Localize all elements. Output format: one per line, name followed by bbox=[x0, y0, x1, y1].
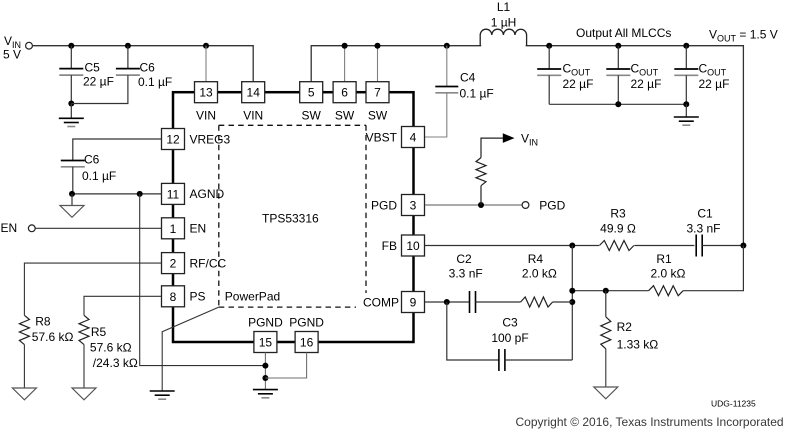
ground triangle under R8 bbox=[12, 345, 36, 400]
pin 8 PS bbox=[162, 286, 206, 307]
node VIN-C6 bbox=[125, 43, 131, 49]
svg-text:/24.3 kΩ: /24.3 kΩ bbox=[93, 356, 138, 370]
inductor L1 bbox=[480, 0, 526, 46]
svg-text:22 µF: 22 µF bbox=[699, 77, 730, 91]
svg-text:C6: C6 bbox=[84, 153, 100, 167]
svg-text:UDG-11235: UDG-11235 bbox=[711, 399, 756, 409]
svg-text:22 µF: 22 µF bbox=[631, 77, 662, 91]
ground triangle under C6 bbox=[60, 194, 84, 217]
svg-text:2: 2 bbox=[170, 257, 177, 271]
pin 4 VBST bbox=[366, 127, 425, 148]
pin 15 PGND bbox=[248, 316, 283, 353]
pin 12 VREG3 bbox=[162, 129, 231, 150]
ground earth under C5 bbox=[59, 104, 84, 127]
ground earth under COUT3 bbox=[674, 104, 699, 125]
node star-AGND bbox=[262, 363, 268, 369]
node VIN-pin13 bbox=[203, 43, 209, 49]
svg-text:10: 10 bbox=[406, 239, 420, 253]
svg-text:RF/CC: RF/CC bbox=[190, 256, 227, 270]
svg-text:5 V: 5 V bbox=[3, 48, 21, 62]
resistor R3 bbox=[599, 207, 636, 252]
wire RF/CC to R8 bbox=[24, 263, 161, 315]
svg-text:1: 1 bbox=[170, 222, 177, 236]
svg-text:3.3 nF: 3.3 nF bbox=[449, 267, 483, 281]
svg-text:100 pF: 100 pF bbox=[491, 331, 528, 345]
capacitor C6 (VREG3 bypass) bbox=[61, 139, 162, 194]
wire FB vertical bbox=[571, 246, 573, 361]
svg-text:4: 4 bbox=[410, 131, 417, 145]
wire pin15 ground drop bbox=[264, 353, 266, 390]
node OUT-COUT3 bbox=[683, 43, 689, 49]
svg-text:SW: SW bbox=[368, 109, 388, 123]
IC TPS53316 pin ring bbox=[173, 92, 414, 342]
capacitor COUT 3 bbox=[674, 46, 729, 105]
capacitor C6 (input bypass) bbox=[116, 46, 172, 89]
node AGND-C6 bbox=[69, 191, 75, 197]
svg-text:R5: R5 bbox=[91, 325, 107, 339]
svg-text:SW: SW bbox=[335, 109, 355, 123]
pin 13 VIN bbox=[195, 82, 218, 123]
node star-pin16 bbox=[262, 375, 268, 381]
node bus-COUT3 bbox=[683, 101, 689, 107]
svg-text:15: 15 bbox=[259, 336, 273, 350]
terminal PGD bbox=[522, 202, 529, 209]
svg-text:1 µH: 1 µH bbox=[491, 16, 517, 30]
capacitor C1 bbox=[686, 207, 743, 258]
svg-text:SW: SW bbox=[302, 109, 322, 123]
wire FB bbox=[425, 245, 695, 247]
svg-text:C6: C6 bbox=[140, 61, 156, 75]
svg-text:57.6 kΩ: 57.6 kΩ bbox=[32, 330, 74, 344]
pin 1 EN bbox=[162, 218, 207, 239]
wire AGND tie to PGND star bbox=[140, 194, 266, 366]
capacitor C5 bbox=[59, 46, 114, 104]
node VOUT-C1 bbox=[740, 243, 746, 249]
svg-text:FB: FB bbox=[382, 239, 397, 253]
svg-text:0.1 µF: 0.1 µF bbox=[138, 75, 172, 89]
node R1-R2 bbox=[603, 288, 609, 294]
ground earth PowerPad bbox=[150, 391, 175, 399]
svg-text:7: 7 bbox=[374, 86, 381, 100]
wire SW rail bbox=[311, 46, 743, 246]
svg-text:16: 16 bbox=[300, 336, 314, 350]
wire EN bbox=[35, 227, 161, 229]
svg-text:PowerPad: PowerPad bbox=[225, 290, 280, 304]
svg-text:49.9 Ω: 49.9 Ω bbox=[600, 221, 636, 235]
wire riser pin13 bbox=[205, 46, 207, 82]
svg-text:2.0 kΩ: 2.0 kΩ bbox=[522, 267, 557, 281]
node VIN-C5 bbox=[68, 43, 74, 49]
capacitor COUT 2 bbox=[606, 46, 661, 105]
hide rail under inductor bbox=[481, 44, 525, 47]
svg-text:5: 5 bbox=[308, 86, 315, 100]
wire AGND bbox=[72, 193, 162, 195]
svg-text:6: 6 bbox=[341, 86, 348, 100]
wire PS to R5 bbox=[84, 296, 162, 315]
svg-text:L1: L1 bbox=[497, 0, 511, 14]
resistor R1 bbox=[649, 252, 686, 296]
node OUT-COUT2 bbox=[615, 43, 621, 49]
svg-text:22 µF: 22 µF bbox=[563, 77, 594, 91]
node AGND-tie bbox=[137, 191, 143, 197]
svg-text:13: 13 bbox=[199, 86, 213, 100]
svg-text:R2: R2 bbox=[617, 320, 633, 334]
ground triangle under R5 bbox=[72, 345, 96, 400]
svg-text:C5: C5 bbox=[85, 61, 101, 75]
resistor pull-up to VIN bbox=[476, 138, 503, 205]
pin 7 SW bbox=[366, 82, 389, 123]
wire C6 to ground node bbox=[71, 75, 128, 103]
node SW-C4 bbox=[444, 43, 450, 49]
terminal EN bbox=[28, 225, 35, 232]
svg-text:14: 14 bbox=[247, 86, 261, 100]
svg-text:0.1 µF: 0.1 µF bbox=[82, 169, 116, 183]
IC body dashed outline bbox=[219, 125, 366, 307]
node FB-R4 bbox=[569, 299, 575, 305]
pin 11 AGND bbox=[162, 183, 225, 204]
node C5 ground bbox=[68, 101, 74, 107]
svg-text:AGND: AGND bbox=[190, 187, 225, 201]
svg-text:PGD: PGD bbox=[371, 198, 397, 212]
arrow to VIN bbox=[503, 133, 515, 143]
svg-text:PGND: PGND bbox=[289, 316, 324, 330]
svg-text:3.3 nF: 3.3 nF bbox=[686, 221, 720, 235]
svg-text:TPS53316: TPS53316 bbox=[262, 212, 319, 226]
svg-text:0.1 µF: 0.1 µF bbox=[460, 87, 494, 101]
wire COMP bbox=[425, 301, 470, 303]
svg-text:C2: C2 bbox=[456, 252, 472, 266]
node SW-pin6 bbox=[342, 43, 348, 49]
svg-text:R3: R3 bbox=[610, 207, 626, 221]
pin 10 FB bbox=[382, 235, 425, 256]
svg-text:R8: R8 bbox=[35, 315, 51, 329]
svg-text:VREG3: VREG3 bbox=[190, 132, 231, 146]
resistor R5 bbox=[79, 315, 138, 370]
wire R1 to FB node bbox=[572, 290, 648, 292]
svg-text:12: 12 bbox=[166, 133, 180, 147]
wire VOUT down to R1 bbox=[683, 246, 743, 291]
wire riser pin6 bbox=[344, 46, 346, 82]
svg-text:8: 8 bbox=[170, 290, 177, 304]
node FB bbox=[569, 243, 575, 249]
node FB-R1 bbox=[569, 288, 575, 294]
pin 14 VIN bbox=[242, 82, 265, 123]
pin 6 SW bbox=[333, 82, 356, 123]
svg-text:PGD: PGD bbox=[539, 198, 565, 212]
wire PGD bbox=[425, 204, 522, 206]
wire VIN rail bbox=[32, 46, 253, 82]
node OUT-COUT1 bbox=[546, 43, 552, 49]
svg-text:C1: C1 bbox=[697, 207, 713, 221]
capacitor C3 bbox=[447, 302, 573, 371]
svg-text:PS: PS bbox=[190, 290, 206, 304]
capacitor COUT 1 bbox=[537, 46, 593, 105]
resistor R4 bbox=[521, 252, 573, 307]
wire COUT bottom bus bbox=[549, 103, 686, 105]
svg-text:22 µF: 22 µF bbox=[83, 75, 114, 89]
svg-text:57.6 kΩ: 57.6 kΩ bbox=[90, 341, 132, 355]
svg-text:EN: EN bbox=[1, 221, 18, 235]
ground triangle under R2 bbox=[594, 349, 618, 399]
wire PowerPad callout bbox=[162, 307, 219, 391]
pin 2 RF/CC bbox=[162, 253, 227, 274]
pin 5 SW bbox=[300, 82, 323, 123]
svg-text:2.0 kΩ: 2.0 kΩ bbox=[651, 267, 686, 281]
node PGD-pullup bbox=[478, 202, 484, 208]
node SW-pin7 bbox=[375, 43, 381, 49]
capacitor C2 bbox=[449, 252, 521, 313]
svg-text:VBST: VBST bbox=[366, 130, 398, 144]
svg-text:3: 3 bbox=[410, 199, 417, 213]
wire riser pin7 bbox=[377, 46, 379, 82]
svg-text:VIN: VIN bbox=[243, 109, 263, 123]
svg-text:R4: R4 bbox=[528, 252, 544, 266]
pin 16 PGND bbox=[289, 316, 324, 353]
svg-text:1.33 kΩ: 1.33 kΩ bbox=[617, 338, 659, 352]
svg-text:COMP: COMP bbox=[363, 295, 399, 309]
resistor R2 bbox=[601, 291, 658, 352]
pin 3 PGD bbox=[371, 195, 425, 216]
svg-text:VIN: VIN bbox=[196, 109, 216, 123]
svg-text:9: 9 bbox=[410, 296, 417, 310]
svg-text:Output All MLCCs: Output All MLCCs bbox=[576, 26, 671, 40]
node bus-COUT2 bbox=[615, 101, 621, 107]
terminal VIN input bbox=[26, 42, 33, 49]
svg-text:C4: C4 bbox=[460, 71, 476, 85]
svg-text:11: 11 bbox=[167, 187, 180, 201]
svg-text:Copyright © 2016, Texas Instru: Copyright © 2016, Texas Instruments Inco… bbox=[516, 415, 784, 429]
ground earth PGND bbox=[253, 390, 278, 398]
capacitor C4 bbox=[425, 46, 494, 137]
wire pin16 loop bbox=[265, 353, 306, 379]
svg-text:C3: C3 bbox=[502, 315, 518, 329]
node COMP-C3 bbox=[444, 299, 450, 305]
svg-text:EN: EN bbox=[190, 222, 207, 236]
svg-text:R1: R1 bbox=[656, 252, 672, 266]
svg-text:PGND: PGND bbox=[248, 316, 283, 330]
resistor R8 bbox=[19, 315, 73, 345]
pin 9 COMP bbox=[363, 292, 425, 313]
